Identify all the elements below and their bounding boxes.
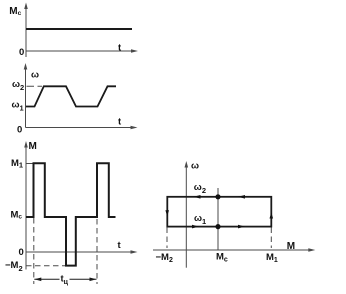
y-axis plot2 bbox=[25, 68, 27, 128]
svg-text:0: 0 bbox=[19, 247, 24, 258]
cycle rectangle bbox=[167, 197, 271, 227]
cycle end dashed vertical bbox=[96, 219, 98, 284]
x-axis plot1 bbox=[26, 50, 132, 52]
svg-text:0: 0 bbox=[19, 47, 24, 58]
-M2 dashed level line bbox=[26, 265, 65, 267]
arrow top-left (pointing left) bbox=[194, 195, 201, 199]
arrow left side (pointing down) bbox=[165, 210, 169, 216]
arrow bottom-right (pointing right) bbox=[238, 225, 245, 229]
x-axis plot3 bbox=[26, 251, 131, 253]
arrow right side (pointing up) bbox=[270, 213, 274, 219]
Mc vertical line bbox=[217, 188, 219, 250]
y-axis plot3 bbox=[25, 146, 27, 270]
arrow top-right (pointing left) bbox=[238, 195, 245, 199]
t_cycle dimension line left bbox=[34, 278, 59, 280]
M(t) torque waveform bbox=[26, 163, 116, 265]
omega(t) trapezoid waveform bbox=[26, 86, 116, 106]
node dot bottom (Mc, omega1) bbox=[215, 224, 220, 229]
omega axis plot4 bbox=[185, 165, 187, 268]
y-axis plot1 bbox=[25, 7, 27, 57]
svg-text:M: M bbox=[29, 141, 37, 152]
arrow bottom-left (pointing right) bbox=[192, 225, 199, 229]
svg-text:M1: M1 bbox=[11, 158, 23, 170]
M axis plot4 bbox=[153, 249, 309, 251]
node dot top (Mc, omega2) bbox=[215, 194, 220, 199]
dashed vertical at -M2 bbox=[166, 228, 168, 249]
Mc constant torque line bbox=[26, 28, 132, 30]
svg-text:ω: ω bbox=[31, 70, 39, 81]
svg-text:ω: ω bbox=[191, 161, 199, 172]
dashed vertical at M1 bbox=[270, 228, 272, 249]
x-axis plot2 bbox=[26, 127, 132, 129]
svg-text:M: M bbox=[287, 241, 295, 252]
t_cycle dimension line right bbox=[70, 278, 97, 280]
omega2 dashed tick bbox=[27, 85, 43, 87]
cycle start dashed vertical bbox=[33, 218, 35, 284]
M1 tick line bbox=[26, 163, 34, 165]
svg-text:0: 0 bbox=[17, 125, 22, 136]
